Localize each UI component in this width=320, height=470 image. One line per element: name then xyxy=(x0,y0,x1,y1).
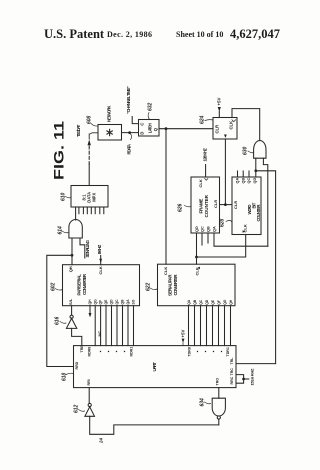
svg-text:128 KHZ: 128 KHZ xyxy=(203,148,208,162)
svg-text:QB: QB xyxy=(121,299,125,305)
svg-text:TSG/DAT: TSG/DAT xyxy=(76,124,81,137)
wire: network input from left xyxy=(89,133,98,139)
label RDATA leader xyxy=(131,134,132,140)
svg-text:UART: UART xyxy=(152,362,157,372)
ref 628 leader xyxy=(226,220,232,222)
ref 616 leader xyxy=(60,322,66,324)
624 pin D arrow xyxy=(224,135,227,138)
svg-text:RDR8: RDR8 xyxy=(88,347,92,357)
wire: latch Q output xyxy=(159,128,213,130)
svg-text:FRAME: FRAME xyxy=(198,199,203,214)
ref 624 leader xyxy=(205,119,213,122)
svg-text:628: 628 xyxy=(219,218,225,227)
svg-text:NC: NC xyxy=(97,331,102,337)
svg-text:QE: QE xyxy=(104,299,108,305)
wire: S/L stub to 616 xyxy=(71,306,73,315)
svg-text:Sheet 10 of 10: Sheet 10 of 10 xyxy=(176,30,223,39)
svg-text:CLR: CLR xyxy=(214,125,219,134)
uart tdr dots xyxy=(197,351,198,352)
wire: mpx pin1 to and 614 output xyxy=(75,207,77,220)
svg-text:QF: QF xyxy=(99,300,103,305)
svg-text:COUNTER: COUNTER xyxy=(204,194,209,217)
svg-text:24: 24 xyxy=(98,438,103,444)
frame counter U5 626 box xyxy=(191,177,220,233)
svg-text:LATCH: LATCH xyxy=(148,123,153,133)
wire: TRO down into 634 xyxy=(218,388,220,399)
svg-text:CONVERTER: CONVERTER xyxy=(82,273,87,295)
wire: 630 output up and left into 624 CLK xyxy=(232,109,260,141)
ref 618 leader xyxy=(66,373,74,374)
634 bubble xyxy=(217,416,220,419)
svg-text:QC: QC xyxy=(115,299,119,305)
svg-text:QB: QB xyxy=(207,226,211,232)
serial/par converter U11 622 box xyxy=(158,264,236,306)
svg-text:CONVERTER: CONVERTER xyxy=(173,274,178,296)
svg-text:QA: QA xyxy=(213,226,217,232)
svg-text:QD: QD xyxy=(110,299,114,305)
wire: 612 input from nand output xyxy=(90,416,219,434)
svg-text:CLK: CLK xyxy=(229,121,234,130)
par/serial converter U9 602 box xyxy=(63,265,140,306)
svg-text:602: 602 xyxy=(50,282,56,291)
flip-flop U3 624 box xyxy=(213,118,237,140)
624 clock edge mark xyxy=(232,120,236,122)
uart U12 618 box xyxy=(74,346,237,388)
svg-text:TDR1: TDR1 xyxy=(226,347,230,356)
svg-text:QH: QH xyxy=(229,299,233,305)
ref 626 leader xyxy=(185,206,192,207)
svg-text:TRE: TRE xyxy=(80,345,84,353)
svg-text:153.6 KHZ: 153.6 KHZ xyxy=(250,368,255,386)
svg-text:COUNTER: COUNTER xyxy=(256,204,261,222)
frame counter bottom stubs xyxy=(201,233,203,245)
svg-text:NETWORK: NETWORK xyxy=(107,105,112,122)
node: clock tie junction xyxy=(242,378,245,381)
node: QD junction xyxy=(254,169,257,172)
svg-text:RRI: RRI xyxy=(87,379,91,385)
ref 612 leader xyxy=(79,410,85,412)
svg-text:622: 622 xyxy=(145,282,151,291)
wire: 614 left input down to QH node xyxy=(71,238,73,265)
ref 608 leader xyxy=(91,124,98,127)
wire: +5V into 624 xyxy=(218,111,220,118)
svg-text:634: 634 xyxy=(199,398,205,407)
arrowhead up on TSG/DAT line xyxy=(88,140,91,146)
svg-text:626: 626 xyxy=(178,203,184,212)
wire: 616 input from UART TRE xyxy=(72,328,82,345)
ref 602 leader xyxy=(55,289,63,291)
svg-text:QG: QG xyxy=(93,299,97,305)
wire: frame QD down to serial/par CLK node xyxy=(196,233,198,264)
svg-text:RRC: RRC xyxy=(230,376,234,384)
svg-text:RDATA: RDATA xyxy=(126,143,131,154)
ref 634 leader xyxy=(205,402,211,404)
svg-text:QB: QB xyxy=(241,178,245,184)
svg-text:624: 624 xyxy=(199,115,205,124)
svg-text:618: 618 xyxy=(61,372,67,381)
svg-text:QA: QA xyxy=(236,178,240,184)
mpx input stubs xyxy=(78,207,80,214)
wire: 624 bottom pin down to CLR line xyxy=(224,139,226,205)
622 clock arrow mark xyxy=(197,267,200,270)
svg-text:TDR8: TDR8 xyxy=(187,347,191,356)
svg-text:612: 612 xyxy=(73,404,79,413)
svg-text:QD: QD xyxy=(253,178,257,184)
svg-text:+5V: +5V xyxy=(217,97,222,105)
svg-text:CLK: CLK xyxy=(163,267,168,275)
svg-text:PAR/SERIAL: PAR/SERIAL xyxy=(76,274,81,296)
svg-text:QH: QH xyxy=(88,299,92,305)
svg-text:QG: QG xyxy=(223,299,227,305)
svg-text:SERIAL/PAR: SERIAL/PAR xyxy=(167,274,172,296)
svg-text:632: 632 xyxy=(147,102,153,111)
power +5V arrow at UART xyxy=(182,339,185,343)
network N1 asterisk xyxy=(107,129,112,135)
wire: TRC RRC tie xyxy=(236,375,244,384)
svg-text:SIGNALLING: SIGNALLING xyxy=(85,239,90,257)
wire: UART RRI down to 612 xyxy=(88,388,90,404)
wire: 128 KHZ into frame CLK xyxy=(205,165,207,178)
svg-text:TRO: TRO xyxy=(216,378,220,386)
word bit counter U6 628 box xyxy=(232,177,261,235)
and gate U8 614 xyxy=(69,219,82,238)
wires: 622 outputs to UART TDR pins xyxy=(188,306,190,346)
wire: QH node left to far left loop xyxy=(47,255,74,366)
wire: 614 right input signalling xyxy=(80,238,85,258)
wire: latch C input, channel time xyxy=(132,117,138,124)
nand gate U14 634 xyxy=(212,398,225,416)
svg-text:C: C xyxy=(140,123,145,126)
wire: 634 output down xyxy=(218,419,220,425)
ref 630 leader xyxy=(248,151,254,153)
wire: 8KHZ into par/serial CLK xyxy=(100,256,102,265)
wire: 628 QD stub to node xyxy=(255,171,257,177)
node: serial clk junction xyxy=(195,256,198,259)
svg-text:RDR1: RDR1 xyxy=(130,347,134,357)
svg-text:QC: QC xyxy=(201,226,205,232)
svg-text:CLR: CLR xyxy=(213,200,218,208)
uart rdr dots xyxy=(100,351,101,352)
inverter U13 612 xyxy=(85,407,95,417)
ref 614 leader xyxy=(62,231,68,233)
arrow on 8KHZ wire xyxy=(99,259,102,263)
628 top stubs QA QB QC xyxy=(237,171,239,177)
svg-text:S/L: S/L xyxy=(68,298,73,305)
svg-text:D: D xyxy=(140,132,145,135)
svg-text:8KHZ: 8KHZ xyxy=(97,244,102,254)
svg-text:SO: SO xyxy=(132,299,136,304)
svg-text:630: 630 xyxy=(242,146,248,155)
and gate U4 630 xyxy=(254,141,266,159)
svg-text:616: 616 xyxy=(54,316,60,325)
628 clock arrow mark xyxy=(243,230,246,233)
latch U2 632 box xyxy=(139,120,160,137)
svg-text:TRC: TRC xyxy=(230,368,234,376)
svg-text:QA: QA xyxy=(126,299,130,305)
svg-text:U.S. Patent: U.S. Patent xyxy=(44,27,105,41)
svg-text:QD: QD xyxy=(205,299,209,305)
svg-text:CLK: CLK xyxy=(198,179,203,187)
node: QH junction xyxy=(71,254,74,257)
svg-text:+5V: +5V xyxy=(180,329,185,337)
svg-text:QD: QD xyxy=(195,226,199,232)
svg-text:QA: QA xyxy=(187,299,191,305)
svg-text:610: 610 xyxy=(60,192,66,201)
wire: QD node right to bus B xyxy=(256,171,276,364)
wire: CLR tie between counters xyxy=(220,204,233,206)
svg-text:Dec. 2, 1986: Dec. 2, 1986 xyxy=(107,30,152,39)
svg-text:QF: QF xyxy=(217,300,221,305)
svg-text:MPX: MPX xyxy=(91,193,96,202)
wire: 630 left input from WORD QD node xyxy=(255,158,257,171)
network N1 box xyxy=(98,125,122,141)
ref 610 leader xyxy=(66,197,72,198)
svg-text:QC: QC xyxy=(247,178,251,184)
612 bubble xyxy=(88,403,91,406)
wires: 602 outputs to UART RDR pins xyxy=(94,306,96,346)
svg-text:QE: QE xyxy=(211,299,215,305)
wire: frame QA down right up to 630 input xyxy=(214,233,268,246)
wire: TSG/DAT dashed segment xyxy=(88,146,90,164)
svg-text:TRL: TRL xyxy=(230,357,234,365)
svg-text:CLK: CLK xyxy=(98,266,103,274)
ref 632 leader xyxy=(148,113,149,120)
svg-text:614: 614 xyxy=(57,226,63,235)
power +5V arrow xyxy=(218,107,221,111)
ref 622 leader xyxy=(150,288,157,290)
616 bubble xyxy=(70,315,73,318)
wire: 628 CLK down left to node xyxy=(197,235,246,258)
svg-text:“CHANNEL TIME”: “CHANNEL TIME” xyxy=(126,86,131,114)
node: junction on RDATA wire xyxy=(128,131,131,134)
602 NC stub with down arrow xyxy=(89,306,91,313)
wire: TRL right to bus B xyxy=(236,363,276,365)
svg-text:RRD: RRD xyxy=(75,361,79,369)
mpx U7 610 box xyxy=(71,186,108,208)
inverter U10 616 xyxy=(66,318,76,328)
node: CLR junction xyxy=(224,203,227,206)
node: Q junction xyxy=(165,127,168,130)
svg-text:FIG. 11: FIG. 11 xyxy=(52,120,67,180)
wire: 630 right input jog down xyxy=(263,158,267,246)
wire: TSG/DAT solid down to MPX xyxy=(88,164,90,186)
svg-text:QC: QC xyxy=(199,299,203,305)
svg-text:QB: QB xyxy=(193,299,197,305)
svg-text:4,627,047: 4,627,047 xyxy=(230,27,280,41)
wire: clock tie stub right xyxy=(244,378,249,380)
wire: network output to latch D xyxy=(122,132,139,134)
svg-text:608: 608 xyxy=(87,115,93,124)
svg-text:CLR: CLR xyxy=(233,201,238,209)
626 clock edge mark xyxy=(205,179,208,181)
wire: Q down to serial/par CLK xyxy=(165,129,167,265)
svg-text:QH: QH xyxy=(68,266,73,272)
